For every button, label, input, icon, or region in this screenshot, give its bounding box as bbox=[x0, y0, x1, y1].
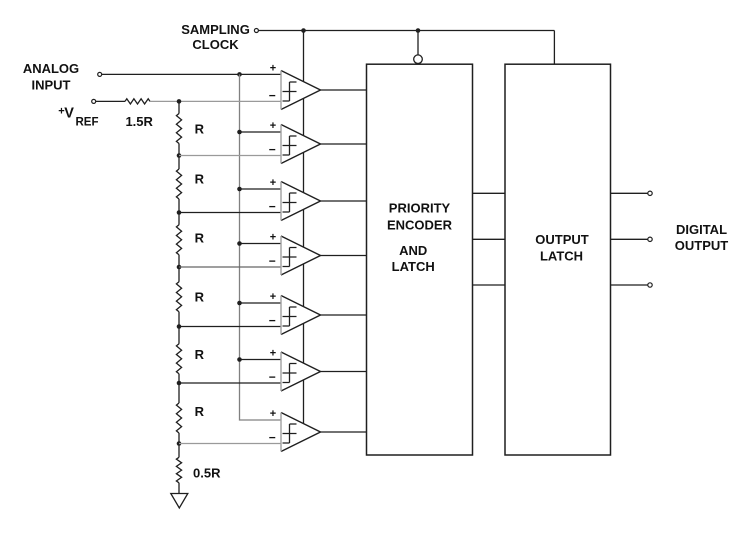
wire: tap 2 to comparator 2 inverting input bbox=[179, 155, 281, 157]
junction: analog input / bus bbox=[237, 72, 242, 77]
comparator U1 bbox=[269, 63, 321, 110]
svg-text:+: + bbox=[270, 408, 276, 420]
resistor R4 bbox=[176, 282, 181, 312]
inverting bubble: encoder clock input bbox=[414, 55, 423, 64]
wire: ladder segment below R5 bbox=[178, 374, 180, 383]
svg-text:1.5R: 1.5R bbox=[125, 114, 153, 129]
svg-text:+: + bbox=[270, 63, 276, 75]
terminal: digital output bit 3 bbox=[648, 283, 652, 287]
junction: ladder tap 5 bbox=[177, 324, 182, 329]
svg-text:OUTPUT: OUTPUT bbox=[535, 232, 589, 247]
svg-text:CLOCK: CLOCK bbox=[192, 37, 239, 52]
junction: ladder tap 7 bbox=[177, 441, 182, 446]
svg-text:−: − bbox=[269, 370, 276, 384]
comparator U3 bbox=[269, 177, 321, 220]
wire: ladder segment above R5 bbox=[178, 327, 180, 344]
wire: sampling clock horizontal bbox=[258, 30, 554, 32]
junction: bus tap for comparator 5 bbox=[237, 301, 242, 306]
svg-text:R: R bbox=[195, 122, 205, 137]
svg-text:AND: AND bbox=[399, 243, 427, 258]
label: PRIORITY ENCODER AND LATCH bbox=[387, 201, 453, 275]
wire: ladder segment below R1 bbox=[178, 144, 180, 156]
svg-text:R: R bbox=[195, 172, 205, 187]
junction: bus tap for comparator 2 bbox=[237, 130, 242, 135]
block: output latch bbox=[505, 64, 611, 455]
wire: clock drop to output latch bbox=[553, 31, 555, 65]
wire: digital output bit 1 bbox=[611, 192, 648, 194]
wire: encoder to output latch bit 3 bbox=[473, 284, 506, 286]
svg-text:−: − bbox=[269, 314, 276, 328]
svg-text:V: V bbox=[64, 106, 74, 122]
junction: ladder tap 3 bbox=[177, 210, 182, 215]
svg-text:R: R bbox=[195, 231, 205, 246]
wire: ladder segment below R2 bbox=[178, 199, 180, 213]
terminal: +VREF bbox=[92, 99, 96, 103]
svg-text:INPUT: INPUT bbox=[32, 78, 71, 93]
junction: bus tap for comparator 3 bbox=[237, 187, 242, 192]
wire: tap 7 to comparator 7 inverting input bbox=[179, 443, 281, 445]
block: priority encoder and latch bbox=[367, 64, 473, 455]
svg-text:R: R bbox=[195, 290, 205, 305]
junction: bus tap for comparator 4 bbox=[237, 241, 242, 246]
svg-text:+: + bbox=[270, 348, 276, 360]
junction: ladder tap 2 bbox=[177, 153, 182, 158]
terminal: digital output bit 2 bbox=[648, 237, 652, 241]
resistor R1 bbox=[176, 114, 181, 144]
wire: ladder segment below R4 bbox=[178, 312, 180, 327]
junction: clock / encoder branch bbox=[416, 28, 421, 33]
svg-text:R: R bbox=[195, 347, 205, 362]
wire: bus to comparator 6 non-inverting input bbox=[240, 359, 282, 361]
wire: comparator 4 output bbox=[321, 255, 367, 257]
terminal: sampling clock bbox=[254, 29, 258, 33]
resistor 0.5R bbox=[176, 457, 181, 483]
resistor R6 bbox=[176, 403, 181, 433]
terminal: analog input bbox=[98, 72, 102, 76]
junction: clock / comparator bus bbox=[301, 28, 306, 33]
svg-text:−: − bbox=[269, 143, 276, 157]
wire: tap 3 to comparator 3 inverting input bbox=[179, 212, 281, 214]
wire: ladder segment above R1 bbox=[178, 101, 180, 113]
svg-text:−: − bbox=[269, 89, 276, 103]
wire: ladder segment above R6 bbox=[178, 383, 180, 403]
wire: bus to comparator 3 non-inverting input bbox=[240, 188, 282, 190]
wire: digital output bit 2 bbox=[611, 238, 648, 240]
wire: vref terminal to resistor 1.5R bbox=[96, 100, 125, 102]
wire: ladder segment below R6 bbox=[178, 433, 180, 444]
wire: comparator 6 output bbox=[321, 371, 367, 373]
svg-text:ANALOG: ANALOG bbox=[23, 61, 79, 76]
junction: ladder tap 4 bbox=[177, 265, 182, 270]
svg-text:REF: REF bbox=[76, 116, 99, 128]
resistor R3 bbox=[176, 225, 181, 255]
resistor R5 bbox=[176, 344, 181, 374]
junction: bus tap for comparator 6 bbox=[237, 357, 242, 362]
svg-text:PRIORITY: PRIORITY bbox=[389, 201, 451, 216]
wire: ladder segment below R3 bbox=[178, 255, 180, 267]
wire: 1.5R to ladder top / comparator 1 inverting input bbox=[150, 100, 281, 102]
label: DIGITAL OUTPUT bbox=[675, 222, 729, 253]
junction: ladder tap 6 bbox=[177, 381, 182, 386]
wire: ladder segment above R3 bbox=[178, 213, 180, 225]
svg-text:+: + bbox=[270, 177, 276, 189]
svg-text:LATCH: LATCH bbox=[392, 259, 435, 274]
junction: ladder top tap bbox=[177, 99, 182, 104]
comparator U7 bbox=[269, 408, 321, 451]
wire: clock drop to priority encoder bbox=[417, 31, 419, 55]
svg-text:+: + bbox=[270, 120, 276, 132]
svg-text:SAMPLING: SAMPLING bbox=[181, 22, 250, 37]
comparator U6 bbox=[269, 348, 321, 391]
wire: bus to comparator 4 non-inverting input bbox=[240, 243, 282, 245]
terminal: digital output bit 1 bbox=[648, 191, 652, 195]
wire: comparator 7 output bbox=[321, 431, 367, 433]
wire: ladder segment above R4 bbox=[178, 267, 180, 282]
wire: tap 5 to comparator 5 inverting input bbox=[179, 326, 281, 328]
resistor R2 bbox=[176, 169, 181, 199]
wire: comparator 5 output bbox=[321, 314, 367, 316]
wire: 0.5R to ground bbox=[178, 483, 180, 494]
wire: ladder segment above 0.5R bbox=[178, 444, 180, 458]
svg-text:−: − bbox=[269, 254, 276, 268]
wire: bus to comparator 5 non-inverting input bbox=[240, 302, 282, 304]
svg-text:R: R bbox=[195, 404, 205, 419]
wire: comparator 3 output bbox=[321, 200, 367, 202]
resistor 1.5R bbox=[125, 99, 150, 104]
wire: ladder segment above R2 bbox=[178, 156, 180, 170]
comparator U5 bbox=[269, 291, 321, 334]
wire: analog bus vertical with corner to comparator 7 bbox=[240, 74, 282, 420]
wire: encoder to output latch bit 2 bbox=[473, 238, 506, 240]
wire: encoder to output latch bit 1 bbox=[473, 192, 506, 194]
comparator U4 bbox=[269, 232, 321, 275]
svg-text:LATCH: LATCH bbox=[540, 248, 583, 263]
wire: comparator clock vertical bus bbox=[303, 31, 305, 441]
svg-text:DIGITAL: DIGITAL bbox=[676, 222, 727, 237]
wire: digital output bit 3 bbox=[611, 284, 648, 286]
ground bbox=[171, 494, 188, 509]
svg-text:−: − bbox=[269, 200, 276, 214]
svg-text:0.5R: 0.5R bbox=[193, 465, 221, 480]
svg-text:+: + bbox=[270, 291, 276, 303]
label: OUTPUT LATCH bbox=[535, 232, 589, 263]
wire: tap 6 to comparator 6 inverting input bbox=[179, 382, 281, 384]
svg-text:OUTPUT: OUTPUT bbox=[675, 238, 729, 253]
svg-text:ENCODER: ENCODER bbox=[387, 218, 453, 233]
svg-text:+: + bbox=[270, 232, 276, 244]
svg-text:−: − bbox=[269, 431, 276, 445]
wire: tap 4 to comparator 4 inverting input bbox=[179, 266, 281, 268]
wire: comparator 1 output bbox=[321, 89, 367, 91]
comparator U2 bbox=[269, 120, 321, 163]
wire: bus to comparator 2 non-inverting input bbox=[240, 131, 282, 133]
wire: analog input to comparator 1 non-inverting input bbox=[102, 73, 281, 75]
wire: comparator 2 output bbox=[321, 143, 367, 145]
